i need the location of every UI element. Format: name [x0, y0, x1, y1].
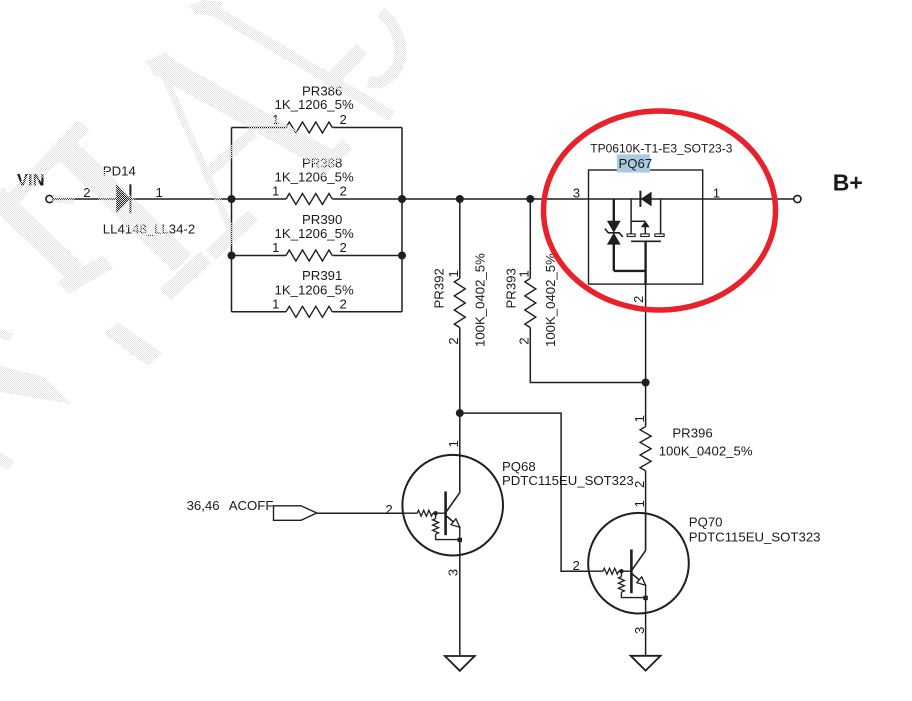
wire diode to left bus: [131, 198, 231, 200]
junction dot node A: [456, 409, 464, 417]
junction dot right bus PR390: [398, 252, 406, 260]
ground PQ68: [445, 656, 475, 671]
wire PR390 leads: [232, 255, 403, 257]
terminal VIN: [46, 195, 53, 202]
junction dot left bus PR390: [228, 252, 236, 260]
ground PQ70: [631, 656, 661, 671]
mosfet PQ67 channel: [627, 199, 664, 284]
junction dot right bus main: [398, 195, 406, 203]
wire node link to PQ70 base: [460, 413, 589, 571]
red markup ellipse around PQ67: [544, 111, 776, 310]
wire ACOFF to PQ68 base: [317, 512, 403, 514]
wire right bus column: [401, 128, 403, 312]
wire PQ68 pin3 to ground: [459, 540, 461, 656]
resistor PR390: [286, 250, 332, 261]
resistor PR388: [286, 194, 332, 205]
wire main VIN to diode: [53, 198, 116, 200]
signal flag ACOFF: [274, 506, 317, 521]
resistor PR391: [286, 306, 332, 317]
mosfet PQ67 gate-source zener: [605, 199, 646, 271]
wire PR386 leads: [232, 127, 403, 129]
wire PR392 to PQ68 collector: [459, 413, 461, 493]
resistor PR392: [454, 278, 465, 327]
wire PR396 leads: [645, 383, 647, 551]
junction dot PR392 top: [456, 195, 464, 203]
junction dot PR393 top: [526, 195, 534, 203]
resistor PR386: [286, 122, 332, 133]
resistor PR393: [525, 278, 536, 327]
resistor PR396: [640, 427, 651, 471]
wire right bus to B+ terminal: [402, 198, 794, 200]
junction dot left bus main: [228, 195, 236, 203]
wire PR393 branch: [530, 199, 645, 383]
wire PQ70 pin3 to ground: [645, 598, 647, 656]
mosfet PQ67 body diode: [640, 191, 651, 207]
wire PR391 leads: [232, 311, 403, 313]
terminal B+: [794, 195, 801, 202]
wire PR388 leads: [232, 198, 403, 200]
transistor PQ68: [402, 455, 503, 556]
junction dot node B: [642, 379, 650, 387]
diode PD14: [116, 184, 130, 213]
wire left bus column: [231, 128, 233, 312]
wire PQ67 pin2 down: [645, 284, 647, 382]
mosfet PQ67 box: [589, 170, 703, 284]
transistor PQ70: [588, 513, 689, 614]
wire PR392 branch: [459, 199, 461, 413]
highlight PQ67: [617, 154, 650, 172]
